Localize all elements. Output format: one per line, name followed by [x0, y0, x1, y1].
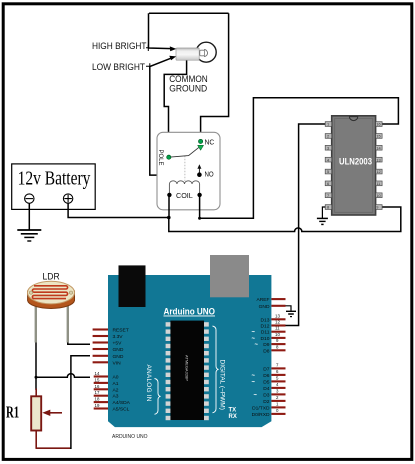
LDR legs	[35, 300, 37, 343]
wire lamp base to POLE	[164, 60, 186, 155]
svg-text:5: 5	[327, 169, 329, 174]
svg-text:RX: RX	[229, 414, 237, 420]
svg-text:9: 9	[376, 205, 378, 210]
relay coil	[169, 181, 199, 195]
svg-text:12: 12	[275, 320, 280, 325]
LDR serpentine track	[32, 286, 67, 299]
analog pin numbers	[95, 371, 100, 408]
wire lamp low-bright terminal to NO	[150, 58, 197, 175]
ground (ULN pin8)	[317, 218, 328, 224]
power jack	[210, 255, 249, 297]
ground (battery)	[17, 230, 41, 241]
right pin stubs	[271, 299, 285, 414]
svg-text:D4: D4	[263, 386, 270, 392]
svg-text:11: 11	[275, 326, 280, 331]
svg-text:NO: NO	[205, 170, 214, 179]
LDR case side	[28, 291, 75, 308]
svg-text:GND: GND	[113, 347, 124, 353]
junction	[167, 216, 171, 220]
svg-text:TX: TX	[229, 408, 237, 414]
svg-text:HIGH BRIGHT: HIGH BRIGHT	[92, 40, 147, 51]
svg-text:D2: D2	[263, 399, 270, 405]
svg-text:POLE: POLE	[157, 150, 163, 166]
wire coil-right up to ULN pin16	[200, 98, 399, 219]
svg-text:A2: A2	[113, 387, 119, 393]
svg-text:14: 14	[95, 371, 100, 376]
battery plus terminal	[63, 194, 72, 203]
svg-text:RESET: RESET	[113, 327, 129, 333]
relay NO contact	[198, 169, 200, 174]
svg-text:LDR: LDR	[43, 270, 60, 281]
left pin stubs	[93, 330, 108, 409]
svg-text:R1: R1	[6, 402, 19, 421]
svg-text:17: 17	[95, 390, 100, 395]
battery minus terminal	[25, 194, 34, 203]
svg-text:A4/SDA: A4/SDA	[113, 400, 131, 406]
svg-text:1: 1	[327, 122, 329, 127]
svg-text:D5: D5	[263, 379, 270, 385]
svg-text:GROUND: GROUND	[169, 84, 207, 94]
coil terminal left	[167, 193, 171, 197]
svg-text:GND: GND	[113, 354, 124, 360]
battery BT1 box	[12, 164, 96, 210]
svg-text:+5V: +5V	[113, 341, 123, 347]
ULN pins left 1-8	[325, 122, 332, 210]
USB connector	[119, 265, 146, 307]
svg-text:12: 12	[376, 169, 380, 174]
ULN pins right 16-9	[376, 122, 383, 210]
coil terminal right	[197, 193, 201, 197]
wire A0 from junction (with hop)	[36, 374, 90, 378]
svg-text:11: 11	[376, 181, 380, 186]
svg-text:ATMEGA328P: ATMEGA328P	[185, 355, 190, 381]
svg-text:A0: A0	[113, 375, 119, 381]
svg-text:AREF: AREF	[256, 297, 269, 303]
Arduino UNO board	[93, 255, 286, 440]
lamp filament	[200, 49, 208, 56]
relay switch arm	[169, 147, 200, 157]
svg-text:8: 8	[327, 205, 329, 210]
ULN pin8 ground wire	[322, 207, 325, 218]
ATmega chip	[170, 321, 204, 420]
LDR top face	[28, 281, 75, 304]
wire lamp loop top	[149, 12, 229, 14]
svg-text:GND: GND	[259, 304, 270, 310]
chip pins	[166, 322, 209, 420]
svg-text:3: 3	[327, 145, 329, 150]
svg-text:COIL: COIL	[176, 191, 193, 200]
lamp L1 glass bulb	[196, 42, 216, 62]
svg-text:~: ~	[251, 380, 255, 386]
svg-text:LOW BRIGHT: LOW BRIGHT	[92, 61, 145, 72]
junction right coil	[198, 217, 201, 220]
wire ULN pin1 to D12	[286, 124, 326, 326]
wire lamp right to NC	[201, 13, 229, 139]
svg-text:13: 13	[275, 313, 280, 318]
wire junction down and right to ULN pin9 (with hop)	[169, 207, 401, 232]
wire LDR left leg down to R1	[35, 343, 37, 391]
svg-text:~: ~	[254, 343, 258, 349]
svg-text:A5/SCL: A5/SCL	[113, 407, 130, 413]
svg-text:16: 16	[376, 122, 380, 127]
left pin labels	[113, 327, 131, 412]
svg-text:Arduino UNO: Arduino UNO	[164, 307, 216, 317]
svg-text:D6: D6	[263, 373, 270, 379]
relay RL1 body	[157, 132, 220, 210]
svg-text:15: 15	[95, 377, 100, 382]
ULN2003 U1 body	[332, 116, 376, 215]
LDR body	[28, 270, 75, 342]
wire Arduino GND to ground	[286, 306, 292, 311]
ground (Arduino GND)	[286, 311, 296, 316]
digital bracket	[213, 326, 219, 413]
wire lamp high-bright terminal	[149, 13, 172, 48]
svg-text:A3: A3	[113, 394, 119, 400]
svg-text:D3: D3	[263, 392, 270, 398]
svg-text:D8: D8	[263, 348, 270, 354]
right pin labels	[252, 297, 270, 418]
svg-text:D12: D12	[261, 324, 270, 330]
svg-text:16: 16	[95, 384, 100, 389]
svg-text:~: ~	[251, 373, 255, 379]
svg-text:DIGITAL (~PWM): DIGITAL (~PWM)	[219, 360, 226, 410]
svg-text:D7: D7	[263, 366, 270, 372]
svg-text:19: 19	[95, 403, 100, 408]
potentiometer R1	[6, 389, 70, 449]
svg-text:D10: D10	[261, 336, 270, 342]
svg-text:18: 18	[95, 397, 100, 402]
leader high bright	[146, 45, 149, 51]
svg-text:~: ~	[251, 330, 255, 336]
wire coil-left down to junction	[168, 195, 170, 218]
svg-text:7: 7	[327, 193, 329, 198]
svg-text:2: 2	[327, 134, 329, 139]
svg-text:ANALOG IN: ANALOG IN	[145, 365, 152, 402]
svg-text:~: ~	[253, 393, 257, 399]
svg-text:D0/RXD: D0/RXD	[252, 412, 270, 418]
battery plus wire to junction	[68, 203, 169, 217]
svg-text:ULN2003: ULN2003	[339, 157, 372, 167]
PWM tildes	[251, 330, 258, 399]
wire LDR right leg to +5V	[68, 343, 90, 345]
board PCB	[108, 275, 271, 427]
svg-text:10: 10	[275, 332, 280, 337]
relay NC contact	[199, 139, 203, 143]
svg-text:15: 15	[376, 134, 380, 139]
digital pin numbers	[275, 313, 280, 413]
svg-text:6: 6	[327, 181, 329, 186]
svg-text:ARDUINO UNO: ARDUINO UNO	[112, 434, 148, 440]
svg-text:D1/TXD: D1/TXD	[252, 405, 270, 411]
analog bracket	[155, 379, 161, 415]
svg-text:COMMON: COMMON	[169, 74, 208, 84]
relay mechanical link (dashed)	[184, 156, 186, 181]
svg-text:D13: D13	[261, 317, 270, 323]
svg-text:12v Battery: 12v Battery	[18, 167, 91, 189]
svg-text:D11: D11	[261, 330, 270, 336]
leader low bright	[146, 63, 150, 69]
svg-text:NC: NC	[205, 137, 215, 146]
battery minus wire	[28, 203, 30, 229]
svg-text:~: ~	[251, 336, 255, 342]
wire GND down to R1 bottom	[36, 356, 90, 448]
relay POLE contact	[167, 155, 171, 159]
svg-text:A1: A1	[113, 381, 119, 387]
svg-text:D9: D9	[263, 342, 270, 348]
svg-text:VIN: VIN	[113, 360, 122, 366]
svg-text:3.3V: 3.3V	[113, 334, 124, 340]
svg-text:13: 13	[376, 157, 380, 162]
